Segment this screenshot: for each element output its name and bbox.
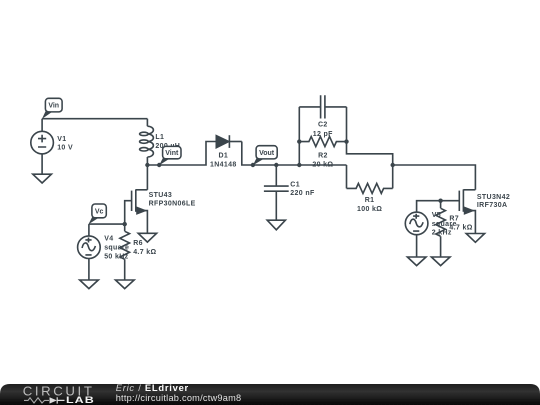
ground (Q1 source)	[138, 233, 156, 242]
svg-text:100 kΩ: 100 kΩ	[357, 206, 382, 213]
wire V4 bottom lead	[88, 259, 90, 281]
diode D1	[216, 135, 242, 148]
svg-text:STU43: STU43	[149, 192, 173, 199]
svg-text:IRF730A: IRF730A	[477, 202, 507, 209]
svg-text:R7: R7	[449, 216, 459, 223]
node junction Vint tap	[157, 163, 161, 167]
voltage source V4	[78, 236, 101, 259]
transistor Q2 STU3N42	[441, 189, 476, 233]
svg-text:square: square	[104, 245, 129, 252]
wire R2C2 right connector	[347, 142, 393, 165]
wire Vin to L1 top	[42, 118, 147, 120]
svg-text:R1: R1	[365, 197, 375, 204]
node junction C1 top	[274, 163, 278, 167]
svg-text:LAB: LAB	[66, 395, 95, 405]
svg-text:V5: V5	[432, 212, 441, 219]
svg-text:1N4148: 1N4148	[210, 161, 237, 168]
ground (V5)	[407, 257, 426, 266]
wire R6 bottom lead	[124, 259, 126, 280]
wire R2C2 left vertical	[298, 107, 300, 165]
svg-text:220 nF: 220 nF	[290, 190, 315, 197]
wire R1 left lead down	[346, 165, 348, 188]
node junction Vout tap	[251, 163, 255, 167]
wire V1 bottom lead	[41, 154, 43, 174]
wire V4 to gate junction	[89, 223, 125, 225]
svg-text:Vc: Vc	[95, 208, 104, 215]
wire R6 top lead	[124, 224, 126, 231]
svg-text:Eric / ELdriver: Eric / ELdriver	[116, 382, 189, 393]
ground (V1)	[33, 174, 52, 183]
wire R1 right lead up	[392, 165, 394, 188]
voltage source V5	[405, 212, 428, 235]
svg-text:V4: V4	[104, 236, 113, 243]
svg-text:D1: D1	[218, 153, 228, 160]
inductor L1	[140, 119, 154, 165]
resistor R7	[436, 208, 446, 236]
node flag Vout	[253, 146, 277, 166]
voltage source V1	[31, 131, 54, 154]
wire V5 to gate	[417, 201, 441, 212]
capacitor C1	[264, 165, 289, 220]
wire to Q2 drain	[393, 165, 476, 190]
ground (C1)	[267, 220, 285, 230]
capacitor C2	[299, 95, 346, 118]
node junction gate R7	[438, 199, 442, 203]
wire R7 top lead	[440, 201, 442, 209]
node flag Vint	[159, 146, 181, 165]
node junction gate R6	[123, 222, 127, 226]
wire L1 to D1 anode	[147, 142, 216, 166]
svg-text:Vout: Vout	[259, 150, 275, 157]
wire D1 cathode down to Vout run	[242, 142, 347, 166]
node junction R2C2 left	[297, 163, 301, 167]
node flag Vc	[89, 204, 107, 224]
wire V4 top lead	[88, 224, 90, 236]
svg-text:C1: C1	[290, 182, 300, 189]
ground (R6)	[116, 280, 135, 289]
svg-text:10 V: 10 V	[57, 145, 73, 152]
resistor R2	[299, 137, 346, 147]
svg-text:4.7 kΩ: 4.7 kΩ	[449, 225, 472, 232]
svg-text:L1: L1	[155, 134, 164, 141]
svg-text:50 kHz: 50 kHz	[104, 254, 128, 261]
ground (V4)	[80, 280, 99, 289]
svg-text:Vin: Vin	[48, 103, 59, 110]
svg-text:RFP30N06LE: RFP30N06LE	[149, 201, 196, 208]
svg-text:R6: R6	[133, 240, 143, 247]
svg-text:R2: R2	[318, 152, 328, 159]
resistor R1	[347, 183, 393, 193]
junction dots	[123, 139, 443, 226]
node junction R2 left	[297, 139, 301, 143]
wire C2 right down to R2	[346, 107, 348, 142]
ground (Q2 source)	[466, 234, 484, 243]
svg-text:4.7 kΩ: 4.7 kΩ	[133, 249, 156, 256]
transistor Q1 STU43	[125, 189, 148, 233]
svg-text:Vint: Vint	[165, 150, 179, 157]
svg-text:20 kΩ: 20 kΩ	[312, 161, 333, 168]
svg-text:STU3N42: STU3N42	[477, 194, 510, 201]
node junction L1 bottom	[145, 163, 149, 167]
node flag Vin	[42, 98, 62, 119]
wire R7 bottom lead	[440, 236, 442, 257]
node junction R2 right	[344, 139, 348, 143]
footer bar	[0, 382, 540, 405]
wire V5 bottom lead	[416, 235, 418, 257]
wire Q1 drain	[146, 165, 148, 190]
resistor R6	[120, 231, 130, 259]
svg-text:http://circuitlab.com/ctw9am8: http://circuitlab.com/ctw9am8	[116, 393, 242, 403]
svg-text:V1: V1	[57, 136, 66, 143]
ground (R7)	[431, 257, 450, 266]
node junction R1 right	[391, 163, 395, 167]
logo resistor zigzag and diode	[24, 398, 49, 403]
svg-text:C2: C2	[318, 121, 328, 128]
wire V1 top lead	[41, 119, 43, 132]
svg-text:12 pF: 12 pF	[313, 131, 333, 138]
